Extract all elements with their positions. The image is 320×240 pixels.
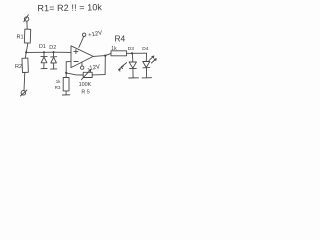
- wire pot to node B: [66, 73, 83, 75]
- node C output: [104, 55, 106, 57]
- resistor R1: [17, 29, 31, 43]
- terminal J2 input bottom: [20, 90, 27, 96]
- terminal -12V: [81, 66, 84, 69]
- node D1 tap: [43, 51, 45, 53]
- svg-text:+12V: +12V: [88, 30, 103, 39]
- diode D1: [39, 44, 47, 68]
- wire R4 to LEDs: [127, 52, 147, 54]
- svg-text:R3: R3: [55, 85, 61, 90]
- terminal J1 input top: [24, 15, 29, 22]
- wire +12V supply to op-amp: [79, 37, 84, 48]
- wire feedback down: [104, 56, 106, 75]
- diode D2: [49, 45, 56, 69]
- node D2 tap: [52, 51, 54, 53]
- ground R3: [62, 94, 70, 96]
- svg-text:D3: D3: [128, 46, 134, 52]
- wire op-amp output: [93, 55, 105, 58]
- svg-text:R4: R4: [115, 34, 126, 44]
- wire R3 to ground: [65, 91, 67, 95]
- wire R2 to J2: [23, 72, 26, 90]
- node D3 tap: [131, 52, 133, 54]
- node B inverting input: [65, 72, 67, 74]
- potentiometer R5 100K: [79, 70, 93, 96]
- LED D4: [142, 46, 156, 78]
- svg-text:R1= R2 !! = 10k: R1= R2 !! = 10k: [37, 2, 102, 13]
- wire op-amp to -12V supply: [81, 62, 83, 66]
- wire J1 to R1: [26, 21, 28, 29]
- LED D3: [118, 46, 138, 78]
- op-amp U1: [71, 46, 93, 68]
- node A divider midpoint: [25, 51, 27, 53]
- wire output to R4: [105, 53, 111, 55]
- note R1=R2=10k: [37, 2, 102, 13]
- svg-text:R1: R1: [17, 35, 24, 41]
- svg-text:R2: R2: [15, 64, 22, 70]
- svg-text:D2: D2: [49, 45, 56, 51]
- resistor R2: [15, 58, 28, 72]
- wire node A to R2: [25, 52, 26, 58]
- svg-text:D1: D1: [39, 44, 46, 50]
- terminal +12V: [82, 33, 85, 36]
- resistor R4: [111, 34, 127, 56]
- svg-text:100K: 100K: [79, 82, 92, 88]
- wire R1 to node A: [26, 43, 28, 52]
- wire node A to op-amp + input: [26, 51, 71, 53]
- resistor R3: [55, 78, 69, 91]
- svg-text:1k: 1k: [56, 79, 61, 84]
- svg-text:R 5: R 5: [81, 89, 89, 95]
- wire op-amp inverting input: [66, 62, 71, 78]
- wire feedback to pot: [92, 74, 105, 76]
- svg-text:D4: D4: [142, 46, 148, 52]
